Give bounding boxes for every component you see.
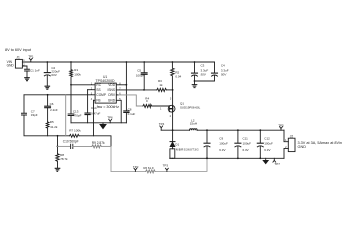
svg-text:63V: 63V bbox=[51, 73, 56, 77]
svg-text:MBRS360T3G: MBRS360T3G bbox=[176, 147, 199, 151]
resistor R7 bbox=[69, 128, 81, 137]
svg-text:FB: FB bbox=[96, 99, 100, 103]
wire comp bottom bbox=[24, 135, 70, 137]
wire VIN rail bbox=[22, 61, 214, 63]
svg-text:0.04: 0.04 bbox=[175, 74, 181, 78]
capacitor C4 bbox=[194, 62, 229, 82]
capacitor C14 bbox=[85, 90, 101, 123]
svg-text:0.1uF: 0.1uF bbox=[128, 112, 136, 116]
svg-text:R9 2.87k: R9 2.87k bbox=[92, 141, 105, 145]
svg-text:8V to 60V input: 8V to 60V input bbox=[5, 48, 32, 52]
svg-text:1k: 1k bbox=[159, 83, 163, 87]
svg-text:ISNS: ISNS bbox=[108, 88, 115, 92]
capacitor C10 bbox=[58, 140, 92, 149]
resistor R4 bbox=[143, 96, 152, 107]
svg-text:C1 1nF: C1 1nF bbox=[30, 69, 40, 73]
wire (gray feedback tap) bbox=[65, 95, 67, 136]
svg-text:TP3: TP3 bbox=[163, 164, 169, 168]
svg-text:SS: SS bbox=[96, 88, 100, 92]
test point TP2 bbox=[133, 165, 139, 171]
capacitor C13 bbox=[68, 85, 81, 123]
wire IC GND pin5 bbox=[116, 100, 121, 123]
svg-text:C11: C11 bbox=[243, 136, 249, 140]
wire VDD bbox=[126, 61, 128, 63]
svg-text:41.2k: 41.2k bbox=[50, 125, 58, 129]
svg-text:2.2nF: 2.2nF bbox=[50, 108, 58, 112]
wire VOUT rail bbox=[197, 129, 284, 131]
connector J2 bbox=[284, 130, 295, 158]
svg-text:SUD19P06-60L: SUD19P06-60L bbox=[180, 106, 201, 110]
svg-text:TP7: TP7 bbox=[274, 162, 280, 166]
svg-text:6.3V: 6.3V bbox=[219, 148, 225, 152]
capacitor C2 bbox=[44, 61, 60, 86]
connector J1 bbox=[7, 55, 26, 68]
svg-text:470pF: 470pF bbox=[73, 114, 82, 118]
svg-text:R8: R8 bbox=[60, 153, 64, 157]
capacitor C12 bbox=[257, 129, 273, 159]
svg-text:6.3V: 6.3V bbox=[243, 148, 249, 152]
capacitor C5 bbox=[136, 61, 147, 90]
svg-text:78.7k: 78.7k bbox=[60, 157, 68, 161]
test point TP4 bbox=[159, 122, 165, 130]
capacitor C1 bbox=[25, 69, 40, 78]
svg-text:C8: C8 bbox=[128, 107, 132, 111]
svg-text:C5: C5 bbox=[137, 69, 141, 73]
svg-text:GND: GND bbox=[7, 64, 15, 68]
ground (R8) bbox=[55, 168, 60, 171]
svg-text:R1: R1 bbox=[74, 68, 78, 72]
svg-text:COMP: COMP bbox=[96, 93, 106, 97]
transistor Q1 bbox=[160, 90, 201, 130]
test point TP3 bbox=[163, 164, 169, 172]
svg-text:GND: GND bbox=[108, 99, 116, 103]
wire RC node bbox=[71, 84, 95, 86]
svg-text:TP6: TP6 bbox=[107, 116, 113, 120]
wire GND rail bbox=[170, 157, 284, 159]
svg-text:D1: D1 bbox=[175, 143, 179, 147]
ground (C2) bbox=[45, 86, 50, 89]
wire switch node bbox=[161, 129, 189, 131]
test point TP5 bbox=[278, 123, 284, 130]
wire COMP bbox=[24, 94, 95, 96]
resistor R1 bbox=[70, 61, 82, 85]
svg-text:VDD: VDD bbox=[108, 83, 115, 87]
capacitor C7 bbox=[22, 95, 38, 135]
svg-text:RC: RC bbox=[96, 83, 101, 87]
svg-text:C9: C9 bbox=[219, 136, 223, 140]
svg-text:100uF: 100uF bbox=[219, 142, 228, 146]
test point TP1 bbox=[28, 54, 34, 62]
op-amp U1 (controller IC TPS40200D) bbox=[91, 75, 121, 109]
resistor R6 bbox=[146, 170, 155, 173]
svg-text:C4: C4 bbox=[221, 63, 225, 67]
wire DRV bbox=[116, 94, 118, 96]
svg-text:R5: R5 bbox=[50, 120, 54, 124]
svg-text:3: 3 bbox=[170, 98, 172, 101]
capacitor C11 bbox=[235, 129, 251, 159]
capacitor C8 bbox=[124, 85, 136, 123]
test point TP7 bbox=[273, 158, 280, 166]
svg-text:R6 61.9: R6 61.9 bbox=[143, 166, 154, 170]
svg-text:J1: J1 bbox=[16, 55, 20, 59]
resistor R2 (sense) bbox=[171, 61, 182, 90]
svg-text:1: 1 bbox=[160, 107, 162, 110]
svg-text:50V: 50V bbox=[201, 72, 207, 76]
feedback sense net (gray) bbox=[111, 146, 207, 171]
svg-text:100uF: 100uF bbox=[243, 142, 252, 146]
svg-text:fsw = 300kHz: fsw = 300kHz bbox=[97, 105, 119, 109]
capacitor C3 bbox=[192, 61, 209, 84]
svg-text:6.3V: 6.3V bbox=[264, 148, 270, 152]
ground (J1/C1) bbox=[25, 78, 30, 81]
svg-text:TP4: TP4 bbox=[159, 122, 165, 126]
ground (C3/C4) bbox=[192, 85, 197, 88]
wire FB bbox=[93, 100, 95, 136]
svg-text:100k: 100k bbox=[74, 72, 81, 76]
svg-text:100uF: 100uF bbox=[264, 142, 273, 146]
wire J1 pin2 bbox=[22, 66, 27, 69]
inductor L2 bbox=[190, 119, 198, 131]
wire ISNS / resistor R3 bbox=[116, 89, 157, 91]
svg-text:0.47uF: 0.47uF bbox=[91, 112, 101, 116]
svg-text:100pF: 100pF bbox=[136, 74, 145, 78]
resistor R9 bbox=[92, 141, 105, 148]
capacitor C6 bbox=[45, 95, 58, 122]
capacitor C9 bbox=[204, 129, 228, 159]
svg-text:C3: C3 bbox=[201, 63, 205, 67]
resistor R8 bbox=[56, 153, 68, 168]
ground (output) bbox=[263, 158, 268, 163]
svg-text:DRV: DRV bbox=[108, 93, 116, 97]
ground (bus) bbox=[100, 123, 106, 129]
ground bus under IC bbox=[71, 122, 126, 124]
svg-text:R7 100k: R7 100k bbox=[69, 128, 81, 132]
diode D1 bbox=[170, 130, 199, 158]
svg-text:2: 2 bbox=[170, 115, 172, 118]
svg-text:33pF: 33pF bbox=[31, 113, 38, 117]
wire SS pin bbox=[88, 89, 96, 91]
test point TP6 bbox=[107, 116, 113, 123]
svg-text:15uH: 15uH bbox=[190, 122, 197, 126]
svg-text:C10 560pF: C10 560pF bbox=[63, 140, 79, 144]
svg-text:50V: 50V bbox=[221, 72, 227, 76]
svg-text:J2: J2 bbox=[290, 135, 294, 139]
svg-text:C12: C12 bbox=[264, 136, 270, 140]
resistor R5 bbox=[46, 120, 58, 136]
svg-text:4: 4 bbox=[91, 98, 93, 101]
resistor R3 bbox=[157, 79, 167, 92]
svg-text:GND: GND bbox=[298, 145, 307, 149]
svg-text:C6: C6 bbox=[50, 102, 54, 106]
svg-text:TP1: TP1 bbox=[28, 54, 34, 58]
divider: vertical with R8 bbox=[57, 136, 59, 154]
